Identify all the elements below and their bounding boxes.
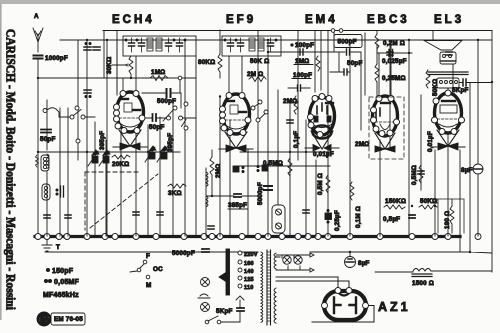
- phono jack: [272, 205, 285, 233]
- dial pointer bar: [219, 249, 230, 295]
- svg-text:50K Ω: 50K Ω: [250, 58, 269, 65]
- IF transformer box 1: [123, 36, 196, 56]
- svg-text:50pF: 50pF: [347, 60, 363, 67]
- wire 385pF: [206, 195, 258, 197]
- svg-text:AZ1: AZ1: [378, 300, 411, 314]
- tube EBC3: [371, 96, 400, 153]
- capacitor 50pF left: [40, 130, 56, 144]
- svg-text:2M Ω: 2M Ω: [247, 71, 263, 78]
- svg-text:0,5MΩ: 0,5MΩ: [411, 165, 418, 185]
- scan left edge line: [0, 4, 2, 320]
- svg-text:0,5µF: 0,5µF: [383, 216, 400, 223]
- wire grid y93: [142, 78, 181, 108]
- tube ECH4: [113, 91, 147, 151]
- ground bus: [35, 235, 460, 238]
- svg-text:2MΩ: 2MΩ: [355, 141, 369, 148]
- svg-text:1MΩ: 1MΩ: [151, 69, 165, 76]
- variable capacitor gang 2: [145, 146, 168, 162]
- trimmer caps dark squares: [233, 165, 268, 173]
- bus junctions: [35, 234, 481, 240]
- capacitor 8uF filter: [345, 252, 370, 268]
- svg-text:1500 Ω: 1500 Ω: [412, 280, 434, 287]
- capacitor 5000pF mains: [45, 249, 258, 257]
- svg-text:0,025µF: 0,025µF: [382, 58, 407, 65]
- resistor 20K: [112, 155, 130, 168]
- misc caps to bus: [44, 52, 452, 218]
- svg-text:500pF: 500pF: [157, 98, 176, 105]
- resistor 0,5M vertical: [317, 173, 330, 195]
- svg-text:125: 125: [244, 277, 254, 283]
- pilot lamp 1: [201, 278, 210, 287]
- svg-text:50KΩ: 50KΩ: [432, 79, 439, 96]
- svg-text:0,5M Ω: 0,5M Ω: [317, 173, 324, 195]
- svg-text:20KΩ: 20KΩ: [112, 161, 129, 168]
- svg-text:5000pF: 5000pF: [172, 250, 195, 257]
- wire rail y52: [269, 52, 361, 130]
- capacitor 385pF: [228, 194, 247, 209]
- vertical wires right: [365, 31, 492, 273]
- capacitor pair left 2: [84, 90, 91, 93]
- resistor 3K: [168, 184, 186, 197]
- svg-text:0,2M Ω: 0,2M Ω: [383, 40, 405, 47]
- resistor 190: [425, 199, 464, 233]
- tube EF9: [219, 93, 253, 153]
- resistor 2M oscillator: [210, 150, 214, 196]
- resistor 2M horizontal: [249, 77, 266, 82]
- wire osc y209: [228, 208, 248, 210]
- wire AVC rail y152: [38, 151, 330, 153]
- wire ech4 50pF stubs: [145, 117, 196, 119]
- svg-text:0,1M Ω: 0,1M Ω: [355, 206, 362, 228]
- svg-text:EM 76-05: EM 76-05: [54, 316, 83, 323]
- svg-text:110: 110: [244, 285, 253, 291]
- band switch F OC OM: [130, 253, 163, 289]
- svg-text:2MΩ: 2MΩ: [215, 164, 222, 178]
- capacitor 5KpF: [452, 79, 469, 94]
- oscillator coils: [47, 154, 208, 207]
- svg-text:150pF: 150pF: [52, 268, 74, 275]
- svg-text:0,25µF: 0,25µF: [334, 210, 341, 231]
- antenna coupling loop: [43, 108, 59, 117]
- resistor 50K agc: [419, 198, 437, 209]
- vertical wires right mid: [248, 31, 350, 237]
- resistor 0,5M phono: [263, 158, 292, 176]
- svg-text:395pF: 395pF: [167, 133, 174, 152]
- variable capacitor gang 1: [88, 122, 110, 236]
- antenna A: [33, 13, 43, 52]
- logo EM 76-05: [37, 312, 85, 326]
- wire rail y78: [38, 77, 196, 79]
- vertical wires left section: [47, 40, 121, 236]
- svg-text:500pF: 500pF: [338, 39, 357, 46]
- resistor 2M vertical em4: [294, 96, 298, 114]
- band switch contacts right: [251, 100, 268, 122]
- svg-text:EBC3: EBC3: [367, 14, 410, 26]
- svg-text:50pF: 50pF: [149, 124, 165, 131]
- capacitor 50pF ebc3: [344, 69, 347, 75]
- antenna coil 040: [42, 184, 64, 200]
- band switch contacts left: [59, 106, 95, 143]
- svg-text:100pF: 100pF: [293, 72, 312, 79]
- svg-text:0,01µF: 0,01µF: [313, 151, 334, 158]
- capacitor pair left 1: [84, 47, 100, 50]
- svg-text:OC: OC: [153, 266, 163, 273]
- resistor 1M: [150, 69, 168, 81]
- capacitor 100pF node: [300, 49, 303, 55]
- svg-text:8µF: 8µF: [358, 260, 370, 267]
- wire em4 grid y166: [236, 165, 330, 167]
- wire speaker 5KpF: [459, 83, 492, 86]
- svg-text:50pF: 50pF: [40, 136, 56, 143]
- wire tube pin stubs: [123, 44, 453, 95]
- resistor 0,1M: [350, 182, 362, 228]
- svg-text:1MΩ: 1MΩ: [295, 58, 309, 65]
- fuse: [198, 294, 210, 298]
- tube AZ1: [278, 277, 411, 322]
- svg-text:M: M: [146, 282, 151, 289]
- capacitor 8uF right: [461, 164, 483, 174]
- resistor 0,25M vertical: [375, 44, 379, 96]
- svg-text:ECH4: ECH4: [112, 14, 155, 26]
- svg-text:0,01µF: 0,01µF: [427, 131, 434, 152]
- capacitor 0,5uF: [383, 215, 415, 223]
- band switch contacts mid: [163, 102, 188, 130]
- svg-text:5000pF: 5000pF: [257, 182, 264, 205]
- svg-text:150KΩ: 150KΩ: [385, 198, 406, 205]
- legend: [43, 268, 79, 299]
- svg-text:220V: 220V: [244, 252, 258, 258]
- pilot lamp 2: [201, 303, 210, 312]
- wire rail y30: [103, 30, 492, 32]
- dashed coupling link: [85, 172, 158, 230]
- svg-text:2MΩ: 2MΩ: [283, 98, 297, 105]
- wire B+ bottom: [310, 252, 492, 272]
- svg-text:0,1µF: 0,1µF: [293, 131, 300, 148]
- svg-text:EM4: EM4: [305, 14, 338, 26]
- svg-text:190 Ω: 190 Ω: [444, 211, 451, 229]
- svg-text:EL3: EL3: [434, 14, 464, 26]
- resistor 30K: [106, 56, 133, 78]
- svg-text:0,05MF: 0,05MF: [54, 279, 79, 286]
- ground symbol: [42, 240, 52, 251]
- svg-text:A: A: [34, 13, 39, 20]
- svg-text:395pF: 395pF: [99, 131, 106, 150]
- svg-text:5KpF: 5KpF: [216, 308, 233, 315]
- power transformer: [261, 250, 280, 325]
- tube EM4 magic eye: [305, 94, 339, 152]
- dial lamps: [276, 253, 314, 272]
- svg-text:CARISCH - Modd. Boito - Donize: CARISCH - Modd. Boito - Donizetti - Masc…: [4, 29, 18, 311]
- resistor 150K: [384, 198, 406, 209]
- svg-text:T: T: [56, 244, 60, 251]
- svg-text:140: 140: [244, 269, 254, 275]
- svg-text:100pF: 100pF: [295, 42, 314, 49]
- capacitor 0,25uF: [325, 209, 341, 231]
- svg-text:1000pF: 1000pF: [45, 55, 68, 62]
- svg-text:5KpF: 5KpF: [452, 87, 469, 94]
- resistor 0,2M vertical: [375, 31, 379, 54]
- capacitor 5KpF mains: [216, 296, 244, 322]
- capacitor osc to bus: [208, 226, 214, 229]
- resistor 1M if2: [316, 56, 320, 71]
- mains switch: [205, 316, 240, 324]
- capacitor 100pF grid: [298, 85, 301, 91]
- scan top edge band: [0, 0, 500, 4]
- svg-text:80KΩ: 80KΩ: [198, 59, 215, 66]
- svg-text:8µF: 8µF: [461, 167, 473, 174]
- dashed box around EBC3: [369, 97, 404, 159]
- junction circles rail y30: [331, 29, 335, 33]
- svg-text:0,25MΩ: 0,25MΩ: [382, 75, 406, 82]
- svg-text:EM: EM: [39, 317, 50, 324]
- svg-text:385pF: 385pF: [228, 202, 247, 209]
- capacitor 1000pF antenna: [34, 55, 68, 236]
- mains voltage selector: [238, 251, 258, 291]
- svg-text:160: 160: [244, 261, 254, 267]
- wire top rail y40: [60, 39, 492, 41]
- svg-text:EF9: EF9: [226, 14, 256, 26]
- resistor 0,5M right: [411, 165, 423, 185]
- choke 1500: [412, 269, 434, 288]
- capacitor 0,025uF coupling: [389, 50, 393, 57]
- oscillator coil 050: [36, 155, 50, 171]
- svg-text:F: F: [146, 253, 150, 260]
- vertical wires mid section: [104, 30, 230, 236]
- speaker: [424, 31, 468, 89]
- capacitor 5000pF vertical: [257, 182, 272, 205]
- IF transformer box 2: [222, 36, 281, 56]
- capacitor 500pF em4: [347, 49, 350, 55]
- resistor 80K: [198, 54, 222, 78]
- svg-text:3KΩ: 3KΩ: [168, 190, 182, 197]
- svg-text:MF465kHz: MF465kHz: [43, 292, 79, 299]
- resistor 50K speaker: [426, 70, 439, 96]
- tube EL3: [431, 90, 465, 150]
